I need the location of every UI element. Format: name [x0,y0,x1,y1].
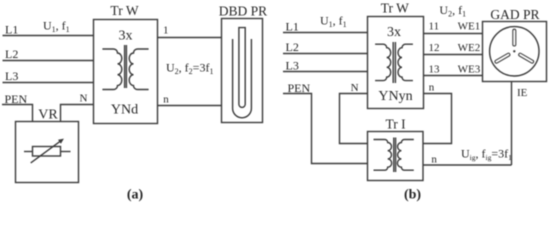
svg-text:n: n [431,154,437,166]
transformer Tr W (a) right winding [129,49,148,90]
svg-text:PEN: PEN [5,92,28,106]
transformer Tr I core [394,138,396,173]
wire L1 (a) [3,35,94,37]
svg-text:GAD PR: GAD PR [490,7,539,22]
svg-text:13: 13 [429,63,441,75]
wire 13 WE3 [424,75,483,77]
svg-text:Tr I: Tr I [386,117,407,132]
svg-text:PEN: PEN [288,81,311,95]
wire L3 (b) [283,71,368,73]
wire L2 (a) [3,60,94,62]
svg-text:12: 12 [429,42,440,54]
wire n (b, Tr W to Tr I) [423,94,452,144]
svg-text:(b): (b) [404,187,421,202]
wire n (a) [158,105,222,107]
svg-text:L1: L1 [286,20,299,34]
wire N (a) [61,105,94,122]
transformer Tr I box [368,132,424,181]
GAD PR circle [490,27,539,76]
wire n (b, Tr I to GAD PR) [423,164,512,166]
svg-text:1: 1 [163,24,169,36]
transformer Tr I left winding [374,140,392,171]
wire PEN (b) [283,94,368,164]
svg-text:L2: L2 [286,40,299,54]
GAD PR blade lower-right [518,53,534,64]
transformer Tr W (b) left winding [375,44,391,80]
DBD PR outer tube [233,39,252,118]
svg-text:(a): (a) [127,187,144,202]
wire 11 WE1 [424,33,483,35]
GAD PR blade up [513,29,516,46]
svg-text:WE2: WE2 [458,42,481,54]
svg-text:Uig, fig=3f1: Uig, fig=3f1 [461,146,512,162]
svg-text:U1, f1: U1, f1 [43,19,70,35]
transformer Tr W (b) core [393,42,395,83]
svg-text:U2, f2=3f1: U2, f2=3f1 [166,61,213,77]
GAD PR blade lower-left [494,53,510,64]
transformer Tr W (a) core [125,45,127,88]
wire 1 (a) [158,37,222,39]
svg-text:U1, f1: U1, f1 [320,14,347,30]
svg-text:N: N [80,93,88,105]
wire 12 WE2 [424,54,483,56]
svg-text:N: N [351,82,359,94]
wire L1 (b) [283,32,368,34]
svg-text:VR: VR [38,107,58,122]
svg-text:Tr W: Tr W [110,3,138,18]
wire N (b) [340,94,368,144]
svg-text:3x: 3x [387,25,401,40]
svg-text:IE: IE [517,87,528,99]
wire IE [511,82,513,166]
DBD PR inner electrode [239,28,245,108]
svg-text:WE1: WE1 [458,20,481,32]
transformer Tr W (b) right winding [398,44,413,80]
varistor VR box [16,122,79,183]
varistor VR symbol [24,139,71,163]
svg-text:YNyn: YNyn [378,89,412,104]
svg-text:WE3: WE3 [458,63,481,75]
svg-text:11: 11 [429,20,440,32]
svg-text:U2, f1: U2, f1 [439,3,466,18]
svg-text:L2: L2 [5,47,18,61]
GAD PR center dot [513,50,515,52]
svg-text:L1: L1 [5,23,18,37]
transformer Tr I right winding [397,140,413,171]
DBD PR box [222,19,263,123]
svg-text:n: n [163,94,169,106]
wire L2 (b) [283,53,368,55]
svg-text:3x: 3x [119,29,133,44]
wire L3 (a) [3,82,94,84]
svg-text:L3: L3 [5,69,18,83]
svg-text:YNd: YNd [111,103,138,118]
GAD PR box [483,22,547,82]
transformer Tr W (b) box [368,17,424,109]
wire PEN (a) [2,105,33,122]
svg-text:L3: L3 [286,59,299,73]
svg-text:DBD PR: DBD PR [219,4,267,19]
svg-text:Tr W: Tr W [381,1,409,16]
transformer Tr W (a) box [94,20,158,124]
svg-text:n: n [429,82,435,94]
transformer Tr W (a) left winding [102,49,121,90]
